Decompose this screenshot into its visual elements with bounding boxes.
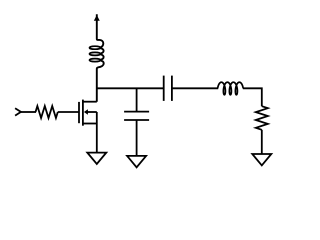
resistor R1 bbox=[36, 106, 58, 118]
capacitor C1 bbox=[124, 112, 149, 120]
transistor M1 gate bar bbox=[78, 102, 80, 123]
wire C1 to ground bbox=[136, 120, 138, 156]
ground G3 bbox=[252, 154, 271, 165]
transistor M1 channel bar bbox=[82, 100, 84, 126]
wire R2 to ground bbox=[261, 130, 263, 154]
transistor M1 source stub bbox=[83, 123, 97, 125]
wire drain rail bbox=[97, 87, 164, 89]
wire R1 to gate bbox=[58, 111, 79, 113]
inductor L2 bbox=[218, 82, 244, 95]
ground G2 bbox=[127, 156, 146, 167]
wire L2 to corner bbox=[243, 88, 262, 106]
inductor L1 bbox=[89, 14, 103, 102]
wire source to ground bbox=[96, 112, 98, 153]
ground G1 bbox=[87, 153, 106, 164]
supply arrow VDD bbox=[94, 15, 100, 21]
input port P1 bbox=[15, 108, 21, 115]
resistor R2 bbox=[256, 106, 268, 130]
wire C2 to L2 bbox=[172, 87, 218, 89]
wire input to R1 bbox=[21, 111, 36, 113]
wire rail to C1 bbox=[136, 88, 138, 111]
capacitor C2 bbox=[164, 76, 172, 101]
transistor M1 bulk arrow bbox=[84, 109, 97, 114]
transistor M1 drain stub bbox=[83, 101, 97, 103]
